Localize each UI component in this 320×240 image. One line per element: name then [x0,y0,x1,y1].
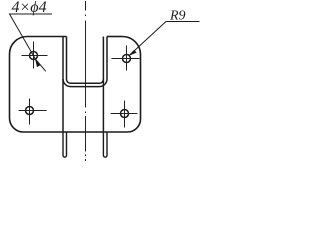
plate outline: top-left corner arc [10,37,28,55]
left leg below plate with rounded tip [63,132,67,157]
channel outer fold line (lower horizontal) with bend arcs [63,79,107,87]
arrowhead on 4xphi4 leader pointing at hole edge [35,59,40,67]
hole top-right center marks [112,46,140,71]
hole top-left circle [30,52,38,60]
plate outline: left edge [9,54,11,118]
vertical centerline (dash-dot) [85,1,87,161]
plate outline: top edge left segment [27,36,67,38]
hole bottom-right circle [121,110,129,118]
plate outline: bottom-right corner arc [128,119,141,132]
channel left wall outer line (runs full height to bottom edge) [62,37,64,133]
hole bottom-left center marks [19,99,47,125]
svg-text:4×ϕ4: 4×ϕ4 [12,0,47,16]
leader line for R9 (shoulder + diagonal) [129,22,199,56]
svg-text:R9: R9 [169,9,186,24]
arrowhead on R9 leader pointing at corner radius [129,50,136,55]
leader line for 4xphi4 (shoulder + diagonal through hole) [10,14,53,71]
plate outline: top edge right segment [107,36,123,38]
hole bottom-right center marks [111,101,138,128]
right leg below plate with rounded tip [103,132,107,157]
plate outline: bottom edge [24,131,128,133]
hole bottom-left circle [26,107,34,115]
plate outline: right edge [140,55,142,120]
channel right wall inner line (runs full height to bottom edge) [102,37,104,133]
plate outline: top-right corner arc R9 [123,37,141,55]
channel right wall outer line [106,37,108,80]
plate outline: bottom-left corner arc [10,118,24,132]
channel left wall inner line with bend arc into inner fold line [67,37,71,84]
channel inner fold line (upper horizontal) [71,79,104,83]
hole top-left center marks [22,42,48,69]
hole top-right circle [123,55,131,63]
